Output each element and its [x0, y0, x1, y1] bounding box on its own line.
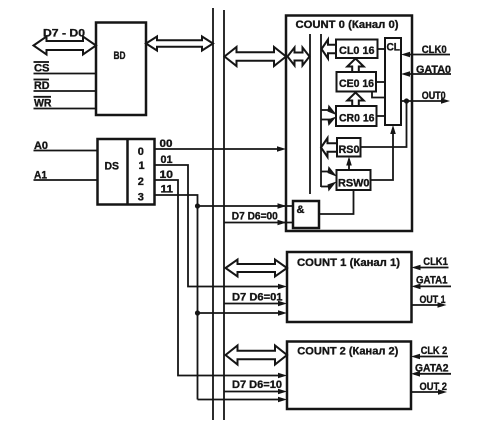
wire GATA2 [414, 373, 451, 375]
wire RSW0 to CL [371, 128, 394, 180]
svg-text:GATA2: GATA2 [415, 363, 449, 375]
svg-text:CLK 2: CLK 2 [421, 345, 448, 357]
bus arrow to COUNT0 [225, 47, 287, 66]
bus arrow to COUNT2 [226, 346, 288, 365]
bus rail left [212, 8, 214, 420]
wire CLK0 [404, 54, 450, 56]
wire OUT1 [412, 304, 444, 306]
svg-text:CL0 16: CL0 16 [339, 45, 375, 57]
svg-text:BD: BD [114, 50, 126, 62]
svg-text:CR0 16: CR0 16 [339, 113, 375, 125]
bus arrow D7-D0 [34, 37, 97, 55]
junction dot OUT0 [404, 98, 409, 103]
wire & output to RSW0 [319, 190, 354, 214]
svg-text:11: 11 [161, 184, 174, 196]
wire GATA0 [404, 73, 451, 75]
svg-text:2: 2 [138, 176, 144, 188]
counter block COUNT 2 [287, 342, 411, 410]
svg-text:&: & [297, 204, 305, 216]
svg-text:D7 D6=00: D7 D6=00 [232, 211, 278, 223]
internal bus arrow COUNT0 [288, 48, 310, 66]
register CL0 [336, 40, 378, 59]
wire CE0 to CL [376, 81, 385, 83]
svg-text:GATA1: GATA1 [416, 275, 448, 287]
register CR0 [336, 106, 377, 126]
wire RSW0 to RS0 [348, 159, 350, 170]
svg-text:DS: DS [105, 161, 120, 173]
svg-text:CE0 16: CE0 16 [339, 78, 374, 90]
wire GATA1 [415, 285, 452, 287]
counter block COUNT 1 [287, 252, 412, 322]
svg-text:COUNT 0 (Канал 0): COUNT 0 (Канал 0) [296, 19, 399, 31]
wire RS0 to OUT0 node [361, 101, 407, 147]
wire 11 branch to COUNT1 [198, 312, 284, 314]
bus rail right [223, 10, 225, 420]
svg-text:1: 1 [139, 160, 145, 172]
wire select 01 to COUNT1 [155, 165, 284, 287]
bus arrow CL0 read [322, 40, 337, 59]
svg-text:0: 0 [138, 146, 144, 158]
svg-text:D7 D6=10: D7 D6=10 [232, 379, 282, 391]
bus write arrows into RSW0 [321, 171, 330, 173]
bus arrow to COUNT1 [226, 260, 288, 277]
internal rail left [309, 34, 311, 194]
svg-text:CL: CL [387, 42, 401, 54]
svg-text:D7 D6=01: D7 D6=01 [232, 292, 283, 304]
wire OUT0 [401, 100, 447, 102]
junction dot [195, 310, 200, 315]
wire select 10 to COUNT2 [155, 180, 284, 376]
wire control write COUNT2 [224, 391, 283, 393]
decoder DS [98, 139, 155, 205]
counter block COUNT 0 [286, 16, 412, 232]
register RSW0 [337, 170, 371, 190]
bus arrow BD to internal bus [146, 37, 213, 51]
bus arrow RS0 read [321, 138, 337, 157]
wire select 00 to COUNT0 [155, 148, 283, 150]
register RS0 [337, 138, 361, 157]
internal rail right [320, 34, 322, 187]
arrow CE0 to CL0 [347, 59, 363, 73]
wire CR0 to CL [377, 115, 386, 117]
wire control write COUNT0 [224, 222, 293, 224]
register CE0 [337, 72, 377, 92]
svg-text:COUNT 1 (Канал 1): COUNT 1 (Канал 1) [297, 257, 400, 269]
wire CLK1 [415, 267, 449, 269]
wire CLK2 [414, 356, 448, 358]
bus write arrows into CR0 [321, 109, 330, 111]
junction dot [195, 203, 200, 208]
wire CL0 to CL [378, 48, 386, 50]
svg-text:RSW0: RSW0 [338, 178, 370, 190]
svg-text:3: 3 [138, 192, 144, 204]
wire 11 branch to COUNT2 [198, 399, 284, 401]
svg-text:CLK1: CLK1 [423, 256, 448, 268]
buffer BD [96, 23, 146, 116]
wire control write COUNT1 [224, 303, 283, 305]
wire CE0 bottom to CL [372, 92, 385, 98]
wire select 11 vertical [155, 195, 198, 400]
control logic CL [385, 38, 401, 125]
arrow CR0 to CE0 [347, 93, 363, 107]
svg-text:D7 - D0: D7 - D0 [43, 28, 85, 40]
and gate & [293, 201, 319, 228]
svg-text:RS0: RS0 [339, 144, 360, 156]
wire 11 branch to COUNT0 & gate [198, 205, 294, 207]
wire OUT2 [411, 391, 444, 393]
svg-text:COUNT 2 (Канал 2): COUNT 2 (Канал 2) [297, 346, 398, 358]
